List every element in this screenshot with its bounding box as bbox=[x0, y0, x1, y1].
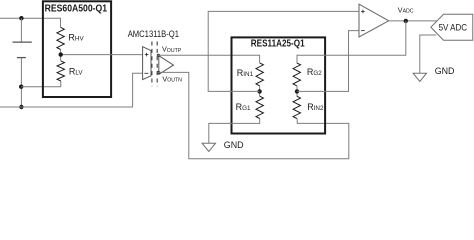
U1 isolation barrier dashed lines bbox=[152, 42, 157, 87]
wire RG2 to RIN2 bbox=[296, 86, 298, 96]
wire feedback to RG2 bbox=[297, 21, 406, 63]
resistor divider box RES60A500-Q1 bbox=[43, 1, 111, 97]
isolated amplifier U1 AMC1311B-Q1 input trapezoid bbox=[143, 47, 151, 80]
resistor RIN1 bbox=[256, 63, 263, 86]
svg-text:GND: GND bbox=[224, 140, 244, 150]
resistor RG2 bbox=[293, 63, 300, 86]
wire battery plus lead bbox=[20, 18, 22, 42]
resistor network box RES11A25-Q1 bbox=[232, 37, 326, 133]
node B opamp minus node bbox=[295, 89, 299, 93]
node battery plus junction bbox=[19, 16, 23, 20]
U2 plus input mark bbox=[361, 10, 365, 14]
U1 minus input mark bbox=[144, 72, 148, 74]
node VADC bbox=[404, 19, 408, 23]
op-amp U2 bbox=[359, 4, 389, 37]
U2 minus input mark bbox=[361, 30, 365, 32]
resistor RG1 bbox=[256, 96, 263, 118]
battery BT1 plate long bbox=[13, 41, 32, 43]
wire bottom rail to AMC minus input bbox=[0, 73, 143, 107]
node divider tap bbox=[59, 52, 63, 56]
node A opamp plus node bbox=[257, 89, 261, 93]
svg-text:RES60A500-Q1: RES60A500-Q1 bbox=[45, 3, 108, 14]
U1 output triangle bbox=[159, 56, 174, 75]
wire VOUTP to RIN1 bbox=[157, 55, 259, 63]
node bottom rail junction bbox=[19, 105, 23, 109]
svg-text:AMC1311B-Q1: AMC1311B-Q1 bbox=[128, 29, 179, 39]
node U1 VOUTN pin bbox=[157, 71, 160, 74]
wire RG1 to ground bbox=[209, 119, 260, 144]
resistor RIN2 bbox=[293, 96, 300, 118]
wire divider tap bbox=[61, 50, 143, 61]
wire VOUTN to RIN2 bbox=[157, 72, 349, 158]
battery BT1 plate short bbox=[17, 57, 26, 59]
wire battery top rail bbox=[0, 18, 61, 27]
resistor RLV bbox=[57, 61, 64, 81]
node battery minus to RLV bbox=[19, 85, 23, 89]
wire battery minus lead bbox=[20, 58, 22, 107]
ground symbol GND1 bbox=[202, 143, 215, 151]
svg-text:GND: GND bbox=[435, 66, 455, 76]
wire opamp plus input bbox=[208, 11, 359, 91]
wire opamp output bbox=[389, 20, 437, 22]
wire RIN1 to RG1 bbox=[259, 86, 261, 96]
node U1 VOUTP pin bbox=[157, 54, 160, 57]
resistor RHV bbox=[57, 27, 64, 49]
svg-text:5V ADC: 5V ADC bbox=[439, 23, 468, 34]
ground symbol GND2 bbox=[413, 73, 426, 81]
wire RLV bottom to battery minus bbox=[21, 81, 61, 87]
wire GND2 stem to ADC tag bbox=[420, 35, 436, 73]
U1 plus input mark bbox=[145, 53, 149, 57]
wire opamp minus input bbox=[297, 31, 359, 92]
svg-text:RES11A25-Q1: RES11A25-Q1 bbox=[251, 39, 305, 50]
5V ADC tag bbox=[431, 14, 473, 40]
